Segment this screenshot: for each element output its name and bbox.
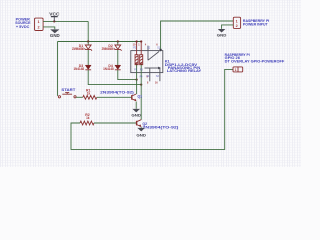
connector J1 power source xyxy=(35,18,44,30)
wire J1 pin1 to VCC rail feed xyxy=(43,20,88,22)
svg-text:2N3904(TO-92): 2N3904(TO-92) xyxy=(100,91,134,95)
wire rail down to START switch xyxy=(57,42,59,96)
svg-text:LATCHING RELAY: LATCHING RELAY xyxy=(167,69,202,73)
junction rail relay coil1 pin xyxy=(136,40,138,42)
junction rail D1 column xyxy=(87,40,89,42)
wire GPIO loop: R2 left down across and up to GPIO pin xyxy=(71,69,233,149)
relay pin names xyxy=(133,47,161,78)
svg-text:2: 2 xyxy=(236,24,238,28)
relay contact pole2 arrow xyxy=(158,67,161,70)
label RASPBERRY PI GPIO 26 DT OVERLAY GPIO-POWEROFF xyxy=(225,53,285,63)
wire D3 down right to coil2 column xyxy=(88,70,141,85)
wire coil2 bottom pin to Q2 collector xyxy=(140,65,142,120)
label D2 ZMM4686 xyxy=(102,44,114,51)
diode D4 xyxy=(115,65,121,70)
svg-text:2N3904(TO-92): 2N3904(TO-92) xyxy=(143,126,179,130)
wire switch to R1 xyxy=(76,96,83,98)
ground GND Q2 xyxy=(136,128,146,138)
wire R1 to Q1 base xyxy=(97,96,132,98)
relay coil2 top pin xyxy=(140,42,142,55)
wire R2 to Q2 base xyxy=(94,122,137,124)
resistor R2 xyxy=(80,121,94,125)
diode D3 xyxy=(85,65,91,70)
junction rail end relay coil2 pin xyxy=(140,40,142,42)
label R1 1k xyxy=(86,89,91,96)
label K1 DSP1-L2-DC5V PANASONIC P/N LATCHING RELAY xyxy=(165,60,202,74)
ground GND Q1 xyxy=(131,109,141,117)
junction coil2 column xyxy=(140,84,142,86)
svg-text:+ 5VDC: + 5VDC xyxy=(16,25,30,29)
wire top VCC rail xyxy=(58,41,142,43)
svg-text:POWER INPUT: POWER INPUT xyxy=(243,23,269,27)
label RASPBERRY PI POWER INPUT xyxy=(243,19,269,27)
svg-text:DT OVERLAY GPIO-POWEROFF: DT OVERLAY GPIO-POWEROFF xyxy=(225,59,285,63)
wire RPi power pin2 to ground xyxy=(222,25,234,29)
svg-text:GND: GND xyxy=(217,33,227,38)
wire Q2 emitter down xyxy=(140,126,142,129)
svg-text:1k: 1k xyxy=(86,116,90,120)
relay contact feed arrow xyxy=(159,49,162,52)
svg-text:VCC: VCC xyxy=(49,11,60,16)
relay contact pole1 common pin xyxy=(147,46,149,61)
relay pin numbers xyxy=(133,43,159,84)
svg-text:2: 2 xyxy=(38,25,40,29)
svg-text:1N4148: 1N4148 xyxy=(103,67,114,71)
wire D1 to D3 xyxy=(87,50,89,65)
label D4 1N4148 xyxy=(103,64,114,71)
svg-text:1: 1 xyxy=(236,19,238,23)
zener D1 xyxy=(84,45,92,51)
wire VCC feed down to top rail xyxy=(87,21,89,41)
wire Q1 emitter down xyxy=(135,102,137,109)
relay K1 body xyxy=(131,51,163,73)
relay contact pole2 out pin down xyxy=(159,69,161,82)
relay coil 1 xyxy=(135,55,138,66)
svg-text:1k: 1k xyxy=(87,91,91,95)
transistor Q1 xyxy=(132,94,137,101)
wire rail to D2 xyxy=(117,42,119,46)
label D3 1N4148 xyxy=(74,64,85,71)
relay contact pole1 blade xyxy=(148,51,159,60)
ground GND power source xyxy=(50,29,60,38)
connector RPi power input xyxy=(233,17,240,28)
svg-text:1: 1 xyxy=(38,20,40,24)
svg-text:GND: GND xyxy=(136,133,146,138)
wire J1 pin2 to ground xyxy=(43,27,55,29)
wire coil1 bottom pin to Q1 collector xyxy=(136,65,138,94)
zener D2 xyxy=(114,45,122,51)
label D1 ZMM4686 xyxy=(72,44,84,51)
svg-text:Q1: Q1 xyxy=(138,94,143,98)
switch START xyxy=(58,93,76,98)
wire rail to D1 xyxy=(87,42,89,46)
relay contact pole2 line xyxy=(145,67,159,69)
svg-text:1N4148: 1N4148 xyxy=(74,67,85,71)
relay contact pole2 pin down xyxy=(149,68,151,81)
svg-text:START: START xyxy=(61,87,76,92)
junction rail D2 column xyxy=(117,40,119,42)
resistor R1 xyxy=(83,95,97,99)
svg-text:GND: GND xyxy=(131,112,141,117)
relay coil1 top pin xyxy=(136,42,138,55)
junction coil1 column xyxy=(136,79,138,81)
svg-text:ZMM4686: ZMM4686 xyxy=(102,47,114,51)
svg-text:ZMM4686: ZMM4686 xyxy=(72,47,84,51)
svg-text:GND: GND xyxy=(50,33,60,38)
connector GPIO 26 xyxy=(233,67,243,72)
relay coil 2 xyxy=(140,55,143,66)
power flag VCC xyxy=(49,11,60,21)
ground GND RPi power xyxy=(217,29,227,38)
wire RPi power pin1 to relay contact xyxy=(161,21,234,49)
svg-text:1: 1 xyxy=(235,68,237,72)
label R2 1k xyxy=(85,113,90,120)
wire D2 to D4 xyxy=(117,50,119,65)
transistor Q2 xyxy=(137,120,142,127)
wire D4 down right to coil1 column xyxy=(118,70,137,80)
junction at VCC tap xyxy=(53,20,55,22)
label POWER SOURCE + 5VDC xyxy=(15,18,31,29)
